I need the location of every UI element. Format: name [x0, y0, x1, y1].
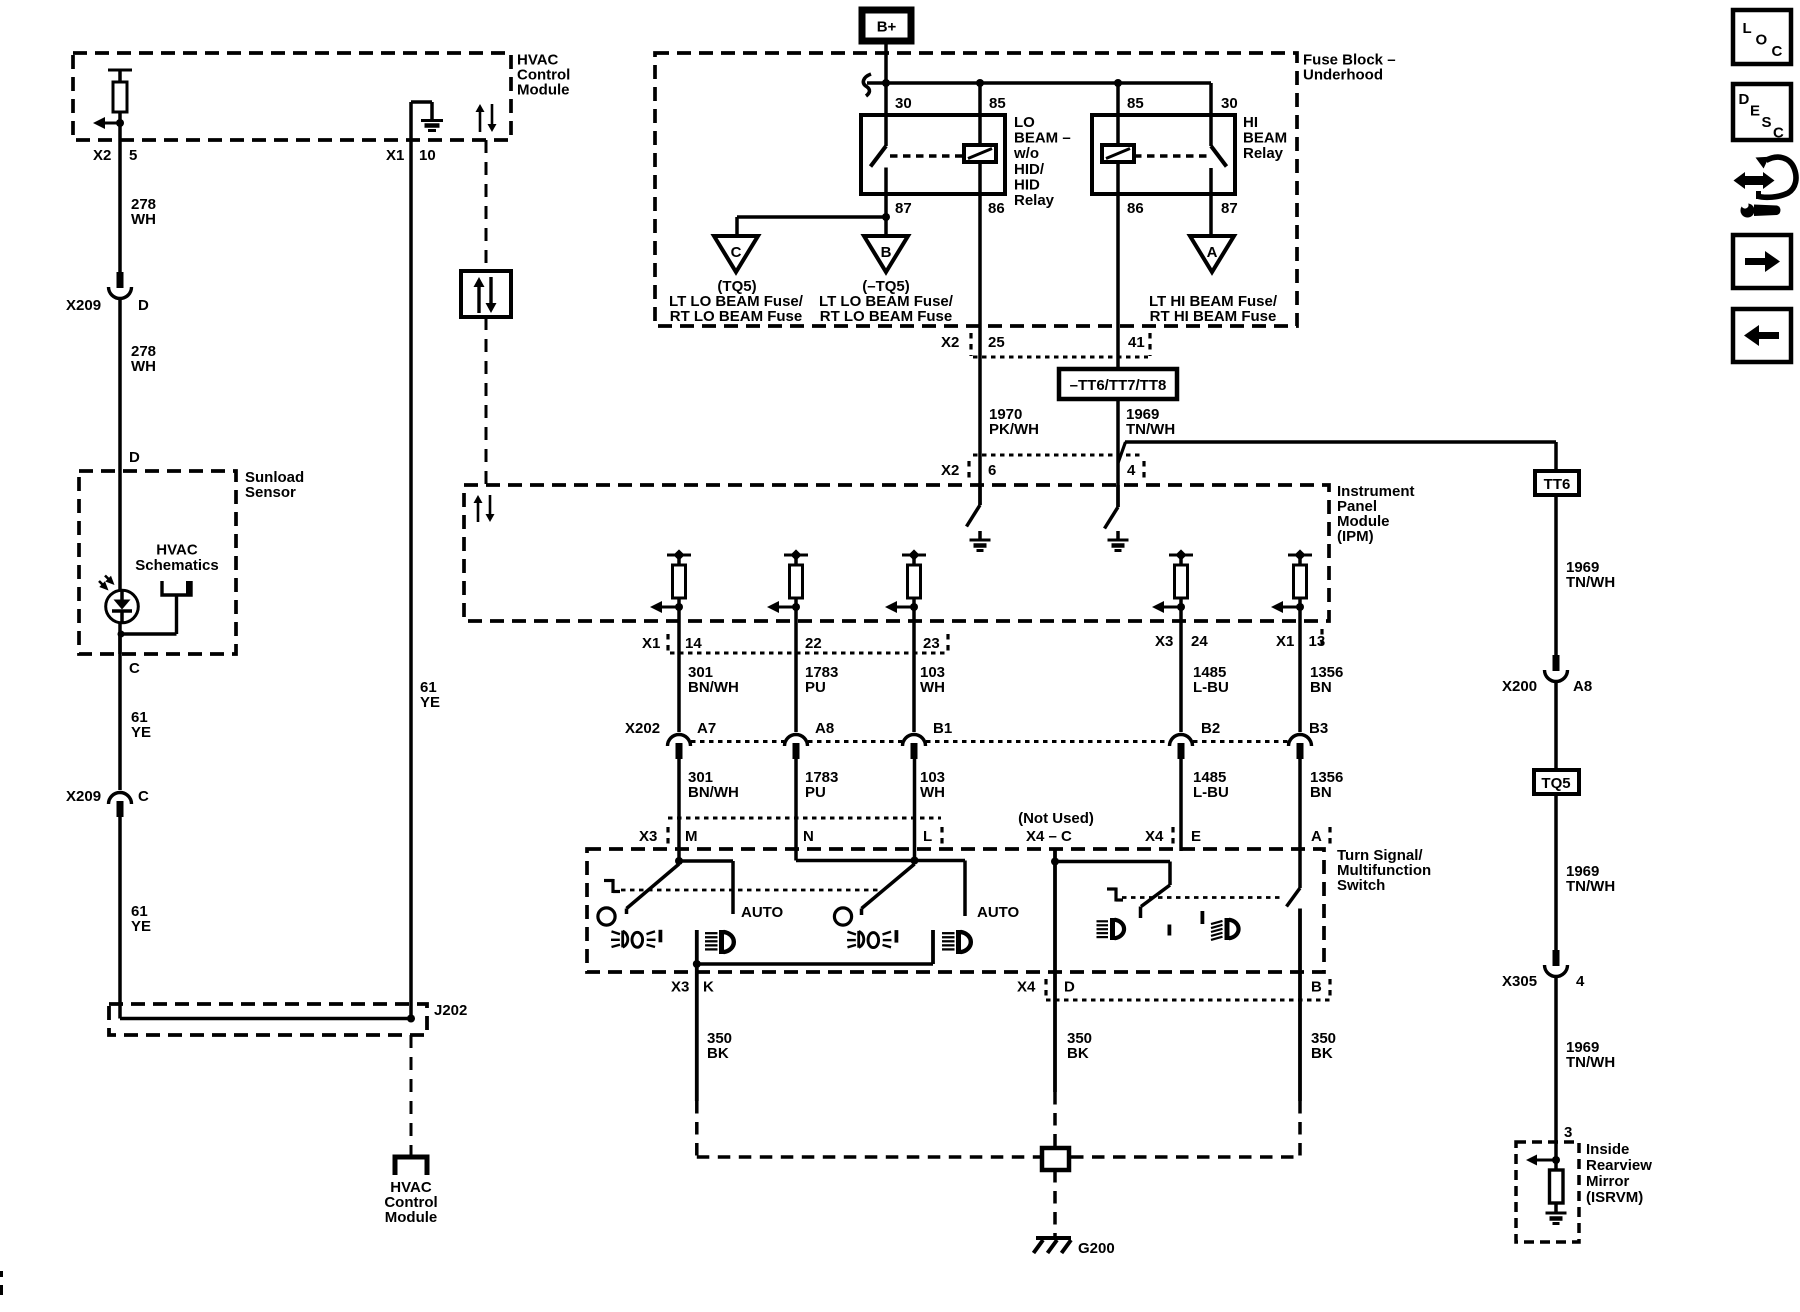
node — [1114, 79, 1122, 87]
svg-text:D: D — [1064, 979, 1075, 996]
svg-text:BEAM: BEAM — [1243, 130, 1287, 147]
svg-text:BN: BN — [1310, 784, 1332, 801]
linkage dashed — [621, 889, 878, 892]
svg-text:X209: X209 — [66, 297, 101, 314]
wire 1969 TN/WH — [1554, 975, 1558, 1160]
svg-text:BN/WH: BN/WH — [688, 679, 739, 696]
dashed ground wire from B — [1298, 1101, 1302, 1157]
svg-text:4: 4 — [1127, 462, 1136, 479]
up/down arrows (HVAC module) — [479, 112, 482, 132]
relay coil — [1102, 145, 1134, 162]
svg-text:B: B — [881, 244, 892, 261]
park lamp icon 1 — [611, 930, 662, 948]
contact circle (off) 2 — [834, 908, 851, 925]
svg-text:PU: PU — [805, 784, 826, 801]
wire below sensor — [118, 634, 122, 790]
signal arrow left — [1535, 1159, 1556, 1162]
svg-text:X2: X2 — [941, 334, 959, 351]
node (junction) — [116, 119, 124, 127]
wire pin85 — [1116, 83, 1120, 145]
svg-text:25: 25 — [988, 334, 1005, 351]
dashed wire to G200 — [1053, 1170, 1057, 1236]
wire pin86 down — [1116, 162, 1120, 369]
wire 1485 L-BU lower — [1179, 757, 1183, 851]
bus wire — [867, 81, 1211, 85]
svg-text:Underhood: Underhood — [1303, 67, 1383, 84]
headlamp switch pole 2 : wire N jog — [796, 859, 915, 863]
relay actuator dashed — [890, 154, 963, 158]
box -TT6/TT7/TT8 — [1059, 369, 1177, 399]
connector X202 B2 — [1170, 735, 1193, 747]
svg-text:D: D — [1739, 91, 1750, 108]
svg-text:K: K — [703, 979, 714, 996]
svg-text:B+: B+ — [877, 19, 897, 36]
svg-text:BK: BK — [1311, 1045, 1333, 1062]
svg-text:Inside: Inside — [1586, 1141, 1629, 1158]
svg-text:D: D — [129, 449, 140, 466]
wire 61 YE to J202 — [118, 817, 122, 1019]
wire K post — [695, 930, 699, 1101]
DESC nav box — [1733, 84, 1791, 140]
wire 1783 PU lower — [794, 757, 798, 861]
svg-text:X1: X1 — [386, 147, 404, 164]
svg-text:30: 30 — [895, 95, 912, 112]
ground — [421, 119, 443, 122]
svg-text:TN/WH: TN/WH — [1126, 421, 1175, 438]
svg-text:YE: YE — [420, 694, 440, 711]
svg-text:87: 87 — [895, 200, 912, 217]
wire 103 WH lower — [913, 757, 917, 861]
fuse triangle B — [864, 236, 908, 272]
svg-text:TN/WH: TN/WH — [1566, 1054, 1615, 1071]
arrow right nav box — [1733, 235, 1791, 288]
svg-text:Module: Module — [385, 1209, 438, 1226]
park lamp icon 2 — [847, 930, 898, 948]
svg-text:86: 86 — [988, 200, 1005, 217]
svg-text:X4: X4 — [1145, 828, 1164, 845]
signal arrow left — [104, 122, 120, 125]
svg-text:14: 14 — [685, 635, 702, 652]
ground — [1546, 1212, 1567, 1215]
wire 1969 TN/WH — [1554, 495, 1558, 655]
fuse triangle C — [714, 236, 758, 272]
svg-text:85: 85 — [1127, 95, 1144, 112]
switch blade 2 — [862, 864, 915, 909]
resistor (sensor feed) in HVAC module — [108, 69, 132, 72]
connector bracket (HVAC control module) — [395, 1157, 427, 1175]
wire X2-5 down — [118, 123, 122, 272]
svg-text:E: E — [1750, 103, 1760, 120]
wire 1356 BN — [1298, 607, 1302, 732]
dashed wire — [485, 317, 488, 485]
svg-text:HI: HI — [1243, 114, 1258, 131]
ground hook inside HVAC module (X1-10) — [411, 100, 432, 104]
svg-text:A8: A8 — [1573, 678, 1592, 695]
Sunload Sensor box — [79, 471, 236, 654]
svg-text:L-BU: L-BU — [1193, 784, 1229, 801]
svg-text:B1: B1 — [933, 720, 952, 737]
svg-text:X4: X4 — [1017, 979, 1036, 996]
wire (bottom run to right) — [120, 1017, 411, 1021]
svg-text:X1: X1 — [1276, 633, 1294, 650]
dashed wire — [485, 140, 488, 271]
wire B+ down — [884, 45, 888, 84]
svg-text:A: A — [1207, 244, 1218, 261]
svg-text:5: 5 — [129, 147, 137, 164]
wire 1969 TN/WH — [1554, 794, 1558, 950]
contact tick — [1168, 925, 1172, 936]
svg-text:w/o: w/o — [1013, 145, 1039, 162]
node — [976, 79, 984, 87]
switch arm — [1055, 860, 1170, 864]
wire — [118, 112, 122, 123]
svg-text:BN: BN — [1310, 679, 1332, 696]
svg-text:M: M — [685, 828, 698, 845]
svg-text:LO: LO — [1014, 114, 1035, 131]
svg-text:D: D — [138, 297, 149, 314]
svg-text:BEAM –: BEAM – — [1014, 130, 1071, 147]
page edge marks — [0, 1271, 3, 1277]
output driver 1 (resistor+arrow) — [650, 549, 691, 613]
ground G200 — [1036, 1236, 1071, 1240]
wire pin87 — [1209, 168, 1213, 236]
svg-text:RT LO BEAM Fuse: RT LO BEAM Fuse — [820, 308, 953, 325]
relay coil — [964, 145, 996, 162]
svg-text:X3: X3 — [639, 828, 657, 845]
box TQ5 — [1534, 770, 1579, 794]
svg-text:YE: YE — [131, 918, 151, 935]
svg-text:C: C — [1773, 125, 1784, 142]
headlamp icon 2 — [942, 930, 971, 954]
wire 1969 — [1116, 399, 1120, 507]
svg-text:22: 22 — [805, 635, 822, 652]
svg-text:AUTO: AUTO — [741, 904, 784, 921]
relay switch blade — [871, 146, 887, 167]
wire — [118, 297, 122, 471]
connector X202 B3 — [1289, 735, 1312, 747]
wire pin87 — [884, 168, 888, 218]
wire pin85-86 — [978, 83, 982, 145]
svg-text:(ISRVM): (ISRVM) — [1586, 1189, 1643, 1206]
contact tick — [1201, 911, 1205, 924]
wire B — [1298, 909, 1302, 1102]
splice block — [1042, 1148, 1069, 1170]
svg-text:X202: X202 — [625, 720, 660, 737]
svg-text:TQ5: TQ5 — [1541, 775, 1570, 792]
LO BEAM relay box — [861, 115, 1005, 194]
svg-text:Module: Module — [517, 82, 570, 99]
arrow left nav box — [1733, 309, 1791, 362]
node — [911, 857, 919, 865]
svg-text:C: C — [138, 788, 149, 805]
svg-text:HID/: HID/ — [1014, 161, 1045, 178]
svg-text:AUTO: AUTO — [977, 904, 1020, 921]
Fuse Block - Underhood box — [655, 53, 1297, 326]
connector row X2 6 / 4 — [973, 454, 1144, 457]
ground switch (1969 input) — [1116, 485, 1120, 507]
svg-text:Relay: Relay — [1014, 192, 1055, 209]
svg-text:3: 3 — [1564, 1124, 1572, 1141]
svg-text:TN/WH: TN/WH — [1566, 878, 1615, 895]
svg-text:87: 87 — [1221, 200, 1238, 217]
bus hook (continuation curl) — [863, 74, 871, 96]
up/down arrow box — [461, 271, 511, 317]
svg-text:C: C — [1772, 43, 1783, 60]
headlamp switch pole 1 : node — [675, 857, 683, 865]
connector X202 A7 — [668, 735, 691, 747]
output driver 5 — [1271, 549, 1312, 613]
AUTO contact 2 — [915, 859, 965, 863]
fog lamp icon 2 — [1211, 918, 1239, 940]
svg-text:YE: YE — [131, 724, 151, 741]
svg-text:Sensor: Sensor — [245, 484, 296, 501]
svg-text:G200: G200 — [1078, 1240, 1115, 1257]
svg-text:Rearview: Rearview — [1586, 1157, 1652, 1174]
connector X209 pin D — [117, 272, 124, 288]
high/fog beam switch (X4-C) : wire — [1053, 850, 1057, 1093]
output driver 4 — [1152, 549, 1193, 613]
svg-text:X3: X3 — [671, 979, 689, 996]
B+ feed box — [862, 10, 911, 41]
svg-text:X200: X200 — [1502, 678, 1537, 695]
svg-text:86: 86 — [1127, 200, 1144, 217]
svg-text:Mirror: Mirror — [1586, 1173, 1630, 1190]
HVAC Control Module box (top) — [73, 53, 511, 140]
relay actuator dashed — [1134, 154, 1207, 158]
svg-text:RT HI BEAM Fuse: RT HI BEAM Fuse — [1150, 308, 1277, 325]
wire 1783 PU — [794, 607, 798, 732]
svg-text:X1: X1 — [642, 635, 660, 652]
svg-text:BN/WH: BN/WH — [688, 784, 739, 801]
HI BEAM relay box — [1092, 115, 1235, 194]
svg-text:S: S — [1762, 114, 1772, 131]
svg-text:N: N — [803, 828, 814, 845]
position mark — [604, 879, 620, 893]
svg-text:J202: J202 — [434, 1002, 467, 1019]
svg-text:B3: B3 — [1309, 720, 1328, 737]
output driver 2 — [767, 549, 808, 613]
dashed ground wire from K — [695, 1101, 699, 1157]
headlamp icon 1 — [705, 930, 734, 954]
svg-text:L: L — [1743, 20, 1752, 37]
svg-text:WH: WH — [131, 211, 156, 228]
node — [882, 213, 890, 221]
svg-text:BK: BK — [1067, 1045, 1089, 1062]
wire 87 junction to fuses — [737, 215, 886, 219]
svg-text:PU: PU — [805, 679, 826, 696]
wire 1485 L-BU — [1179, 607, 1183, 732]
svg-text:X2: X2 — [93, 147, 111, 164]
svg-text:X305: X305 — [1502, 973, 1537, 990]
wire 301 BN/WH lower — [677, 757, 681, 861]
switch blade — [1141, 885, 1170, 907]
svg-text:HVAC: HVAC — [156, 542, 198, 559]
splice J202 box — [109, 1004, 427, 1035]
svg-text:41: 41 — [1128, 334, 1145, 351]
linkage dashed — [1122, 896, 1284, 899]
node — [1051, 858, 1059, 866]
wire — [1554, 680, 1558, 770]
dashed ground wire from D — [1053, 1092, 1057, 1146]
contact circle (off) — [598, 908, 615, 925]
svg-text:X3: X3 — [1155, 633, 1173, 650]
svg-text:HID: HID — [1014, 176, 1040, 193]
svg-text:(IPM): (IPM) — [1337, 528, 1374, 545]
branch to TT6 (right) — [1118, 442, 1126, 463]
resistor (ISRVM) — [1554, 1160, 1558, 1170]
ground switch (1970 input) — [978, 485, 982, 505]
connector X202 B1 — [903, 735, 926, 747]
relay switch blade — [1211, 146, 1227, 167]
svg-text:X2: X2 — [941, 462, 959, 479]
svg-text:4: 4 — [1576, 973, 1585, 990]
svg-text:X209: X209 — [66, 788, 101, 805]
callout bracket to HVAC Schematics — [162, 581, 191, 595]
up/down arrows (IPM) — [477, 503, 480, 522]
svg-text:C: C — [731, 244, 742, 261]
connector X209 pin C — [109, 793, 132, 804]
dashed lead to HVAC control module (bottom) — [410, 1035, 413, 1156]
connector X202 A8 — [785, 735, 808, 747]
wire 103 WH — [912, 607, 916, 732]
svg-text:30: 30 — [1221, 95, 1238, 112]
switch blade 1 — [627, 864, 680, 909]
svg-text:Relay: Relay — [1243, 145, 1284, 162]
LOC nav box — [1733, 10, 1791, 64]
svg-text:A: A — [1311, 828, 1322, 845]
svg-text:WH: WH — [131, 358, 156, 375]
svg-text:O: O — [1756, 32, 1768, 49]
wire pin30 — [884, 83, 888, 146]
photodiode (sunload sensor) — [118, 471, 122, 654]
svg-text:6: 6 — [988, 462, 996, 479]
svg-text:85: 85 — [989, 95, 1006, 112]
box TT6 — [1554, 442, 1558, 471]
wire pin30 — [1209, 83, 1213, 146]
svg-text:L-BU: L-BU — [1193, 679, 1229, 696]
svg-text:A7: A7 — [697, 720, 716, 737]
svg-text:RT LO BEAM Fuse: RT LO BEAM Fuse — [670, 308, 803, 325]
svg-text:C: C — [129, 660, 140, 677]
light arrows — [99, 581, 106, 588]
node — [1552, 1156, 1560, 1164]
svg-text:BK: BK — [707, 1045, 729, 1062]
node — [693, 960, 701, 968]
beam select switch blade (A-B) — [1287, 888, 1301, 907]
svg-text:WH: WH — [920, 784, 945, 801]
connector X200 pin A8 — [1553, 655, 1560, 671]
svg-text:E: E — [1191, 828, 1201, 845]
swap arrows + wrench icon — [1734, 157, 1797, 218]
fog lamp icon 1 — [1097, 918, 1125, 940]
node — [407, 1015, 415, 1023]
svg-text:TN/WH: TN/WH — [1566, 574, 1615, 591]
svg-text:WH: WH — [920, 679, 945, 696]
connector X305 pin 4 — [1553, 950, 1560, 966]
svg-text:Schematics: Schematics — [135, 557, 218, 574]
svg-text:23: 23 — [923, 635, 940, 652]
Instrument Panel Module box — [464, 485, 1329, 621]
svg-text:PK/WH: PK/WH — [989, 421, 1039, 438]
AUTO contact 1 — [679, 859, 733, 863]
wire 1356 BN lower — [1298, 757, 1302, 888]
svg-text:A8: A8 — [815, 720, 834, 737]
node — [118, 631, 125, 638]
svg-text:(Not Used): (Not Used) — [1018, 810, 1094, 827]
Turn Signal/Multifunction Switch box — [587, 849, 1324, 972]
lamp connect wire — [697, 962, 933, 966]
wire 301 BN/WH — [677, 607, 681, 732]
svg-text:10: 10 — [419, 147, 436, 164]
svg-text:B2: B2 — [1201, 720, 1220, 737]
fuse triangle A — [1190, 236, 1234, 272]
svg-text:L: L — [923, 828, 932, 845]
output driver 3 — [885, 549, 926, 613]
position mark — [1107, 888, 1123, 902]
node — [882, 79, 890, 87]
Inside Rearview Mirror box — [1516, 1142, 1579, 1242]
wire 61 YE right leg — [409, 102, 413, 1019]
svg-text:24: 24 — [1191, 633, 1208, 650]
svg-text:Switch: Switch — [1337, 877, 1385, 894]
svg-text:B: B — [1311, 979, 1322, 996]
svg-text:TT6: TT6 — [1544, 476, 1571, 493]
svg-text:–TT6/TT7/TT8: –TT6/TT7/TT8 — [1070, 377, 1167, 394]
svg-text:X4 – C: X4 – C — [1026, 828, 1072, 845]
